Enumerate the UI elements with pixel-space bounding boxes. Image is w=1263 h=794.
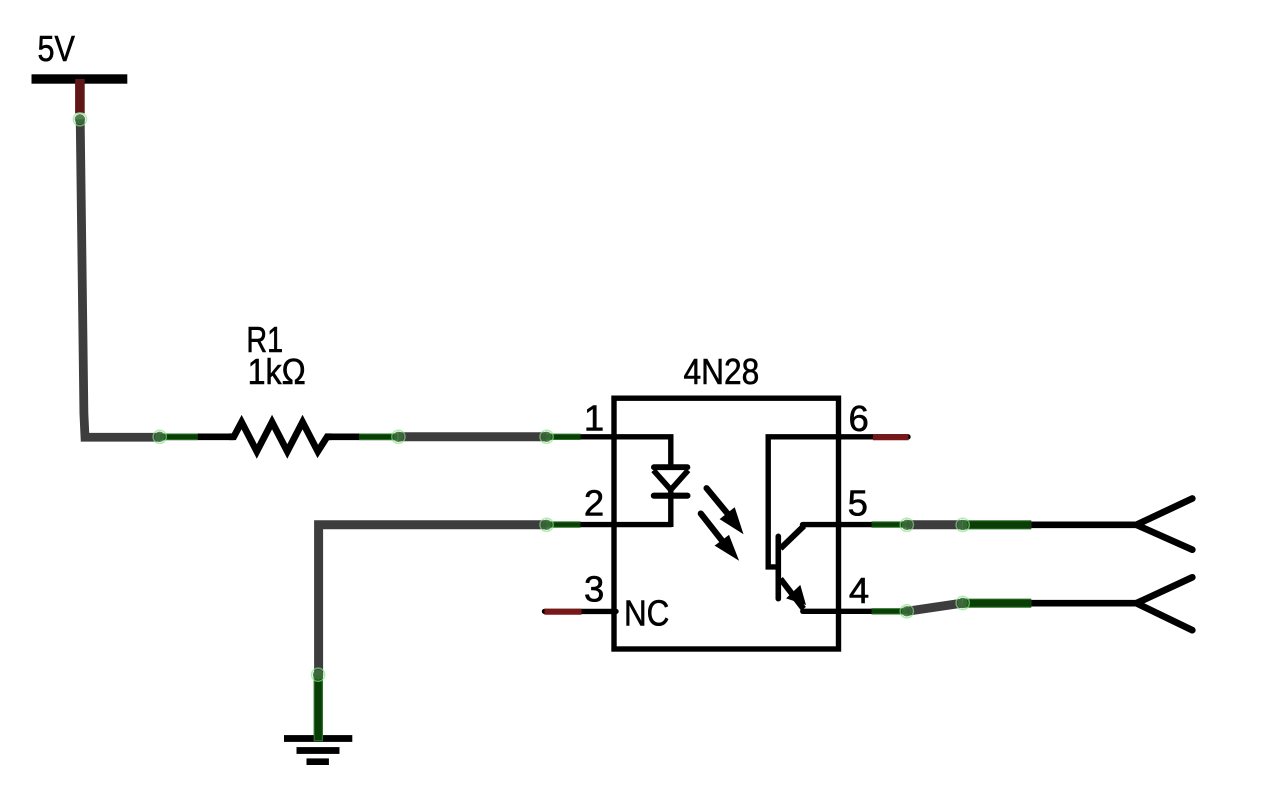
- svg-text:2: 2: [584, 482, 604, 523]
- phototransistor collector stroke: [781, 526, 805, 549]
- power pin stub (red, unlit): [75, 79, 85, 113]
- connector fork top (pin 5 net): [963, 499, 1192, 550]
- svg-text:6: 6: [848, 398, 868, 439]
- resistor zigzag: [229, 422, 332, 451]
- fork arms: [1136, 499, 1192, 550]
- pin 2 highlight (green): [546, 521, 581, 527]
- phototransistor Q1 base bar: [775, 536, 781, 598]
- terminal fork bottom: [956, 596, 969, 609]
- svg-text:5: 5: [848, 483, 868, 524]
- svg-text:5V: 5V: [38, 28, 76, 69]
- photon arrow 2: [701, 514, 739, 561]
- pin 6 lead + base feed: [768, 437, 908, 567]
- ground symbol: [284, 675, 352, 765]
- phototransistor emitter arrowhead: [786, 585, 806, 605]
- fork pin highlight (green): [963, 599, 1031, 608]
- connector fork bottom (pin 4 net): [963, 577, 1192, 630]
- chip outline box: [614, 398, 839, 649]
- wire resistor to pin 1: [398, 432, 546, 441]
- wire 5V to resistor: [80, 119, 160, 437]
- LED D1 triangle: [654, 464, 688, 470]
- terminal chip pin 5: [900, 518, 913, 531]
- pin 1 highlight (green): [546, 434, 581, 440]
- power rail bar: [32, 74, 128, 83]
- ground bar 3: [307, 758, 329, 765]
- fork arms: [1136, 577, 1192, 630]
- resistor R1: [160, 319, 398, 451]
- resistor left pin highlight (green): [161, 433, 198, 440]
- ground bar 2: [297, 747, 340, 754]
- pin 5 highlight (green): [872, 521, 907, 527]
- pin 4 lead + emitter bar: [803, 609, 908, 614]
- terminal chip pin 2: [540, 518, 553, 531]
- pin 1 lead + LED anode feed: [545, 437, 671, 464]
- svg-text:4N28: 4N28: [684, 351, 760, 392]
- ground pin (green): [314, 675, 323, 742]
- terminal fork top: [956, 518, 969, 531]
- pin 2 lead + LED cathode feed: [545, 522, 671, 527]
- svg-text:1: 1: [584, 398, 604, 439]
- terminal resistor right: [392, 430, 405, 443]
- resistor left lead: [160, 433, 234, 440]
- pin 3 lead (NC): [545, 609, 617, 614]
- terminal chip pin 4: [900, 605, 913, 618]
- svg-text:3: 3: [584, 569, 604, 610]
- wire pin 4 segment: [907, 603, 963, 611]
- fork lead: [1031, 600, 1136, 607]
- terminal resistor left: [153, 430, 166, 443]
- photon arrow 1: [707, 488, 744, 534]
- pin 5 lead + collector bar: [803, 522, 909, 527]
- fork lead: [1031, 521, 1136, 528]
- svg-text:1kΩ: 1kΩ: [248, 351, 306, 392]
- svg-text:NC: NC: [624, 593, 669, 634]
- svg-text:4: 4: [849, 570, 869, 611]
- wire pin 2 to ground: [319, 525, 547, 675]
- pin 6 stub (red, NC): [873, 434, 909, 440]
- wire pin 5 segment: [907, 520, 963, 529]
- ground bar 1: [284, 735, 352, 742]
- LED cathode bar: [654, 493, 688, 499]
- pin 4 highlight (green): [872, 608, 907, 614]
- fork pin highlight (green): [963, 520, 1031, 529]
- pin 3 stub (red, NC): [545, 609, 582, 615]
- resistor right lead: [327, 433, 397, 440]
- optocoupler U1 4N28 body: [545, 351, 909, 649]
- terminal ground: [312, 668, 325, 681]
- terminal at 5V pin: [73, 113, 86, 126]
- terminal chip pin 1: [540, 430, 553, 443]
- resistor right pin highlight (green): [359, 433, 397, 440]
- phototransistor emitter stroke: [781, 579, 804, 609]
